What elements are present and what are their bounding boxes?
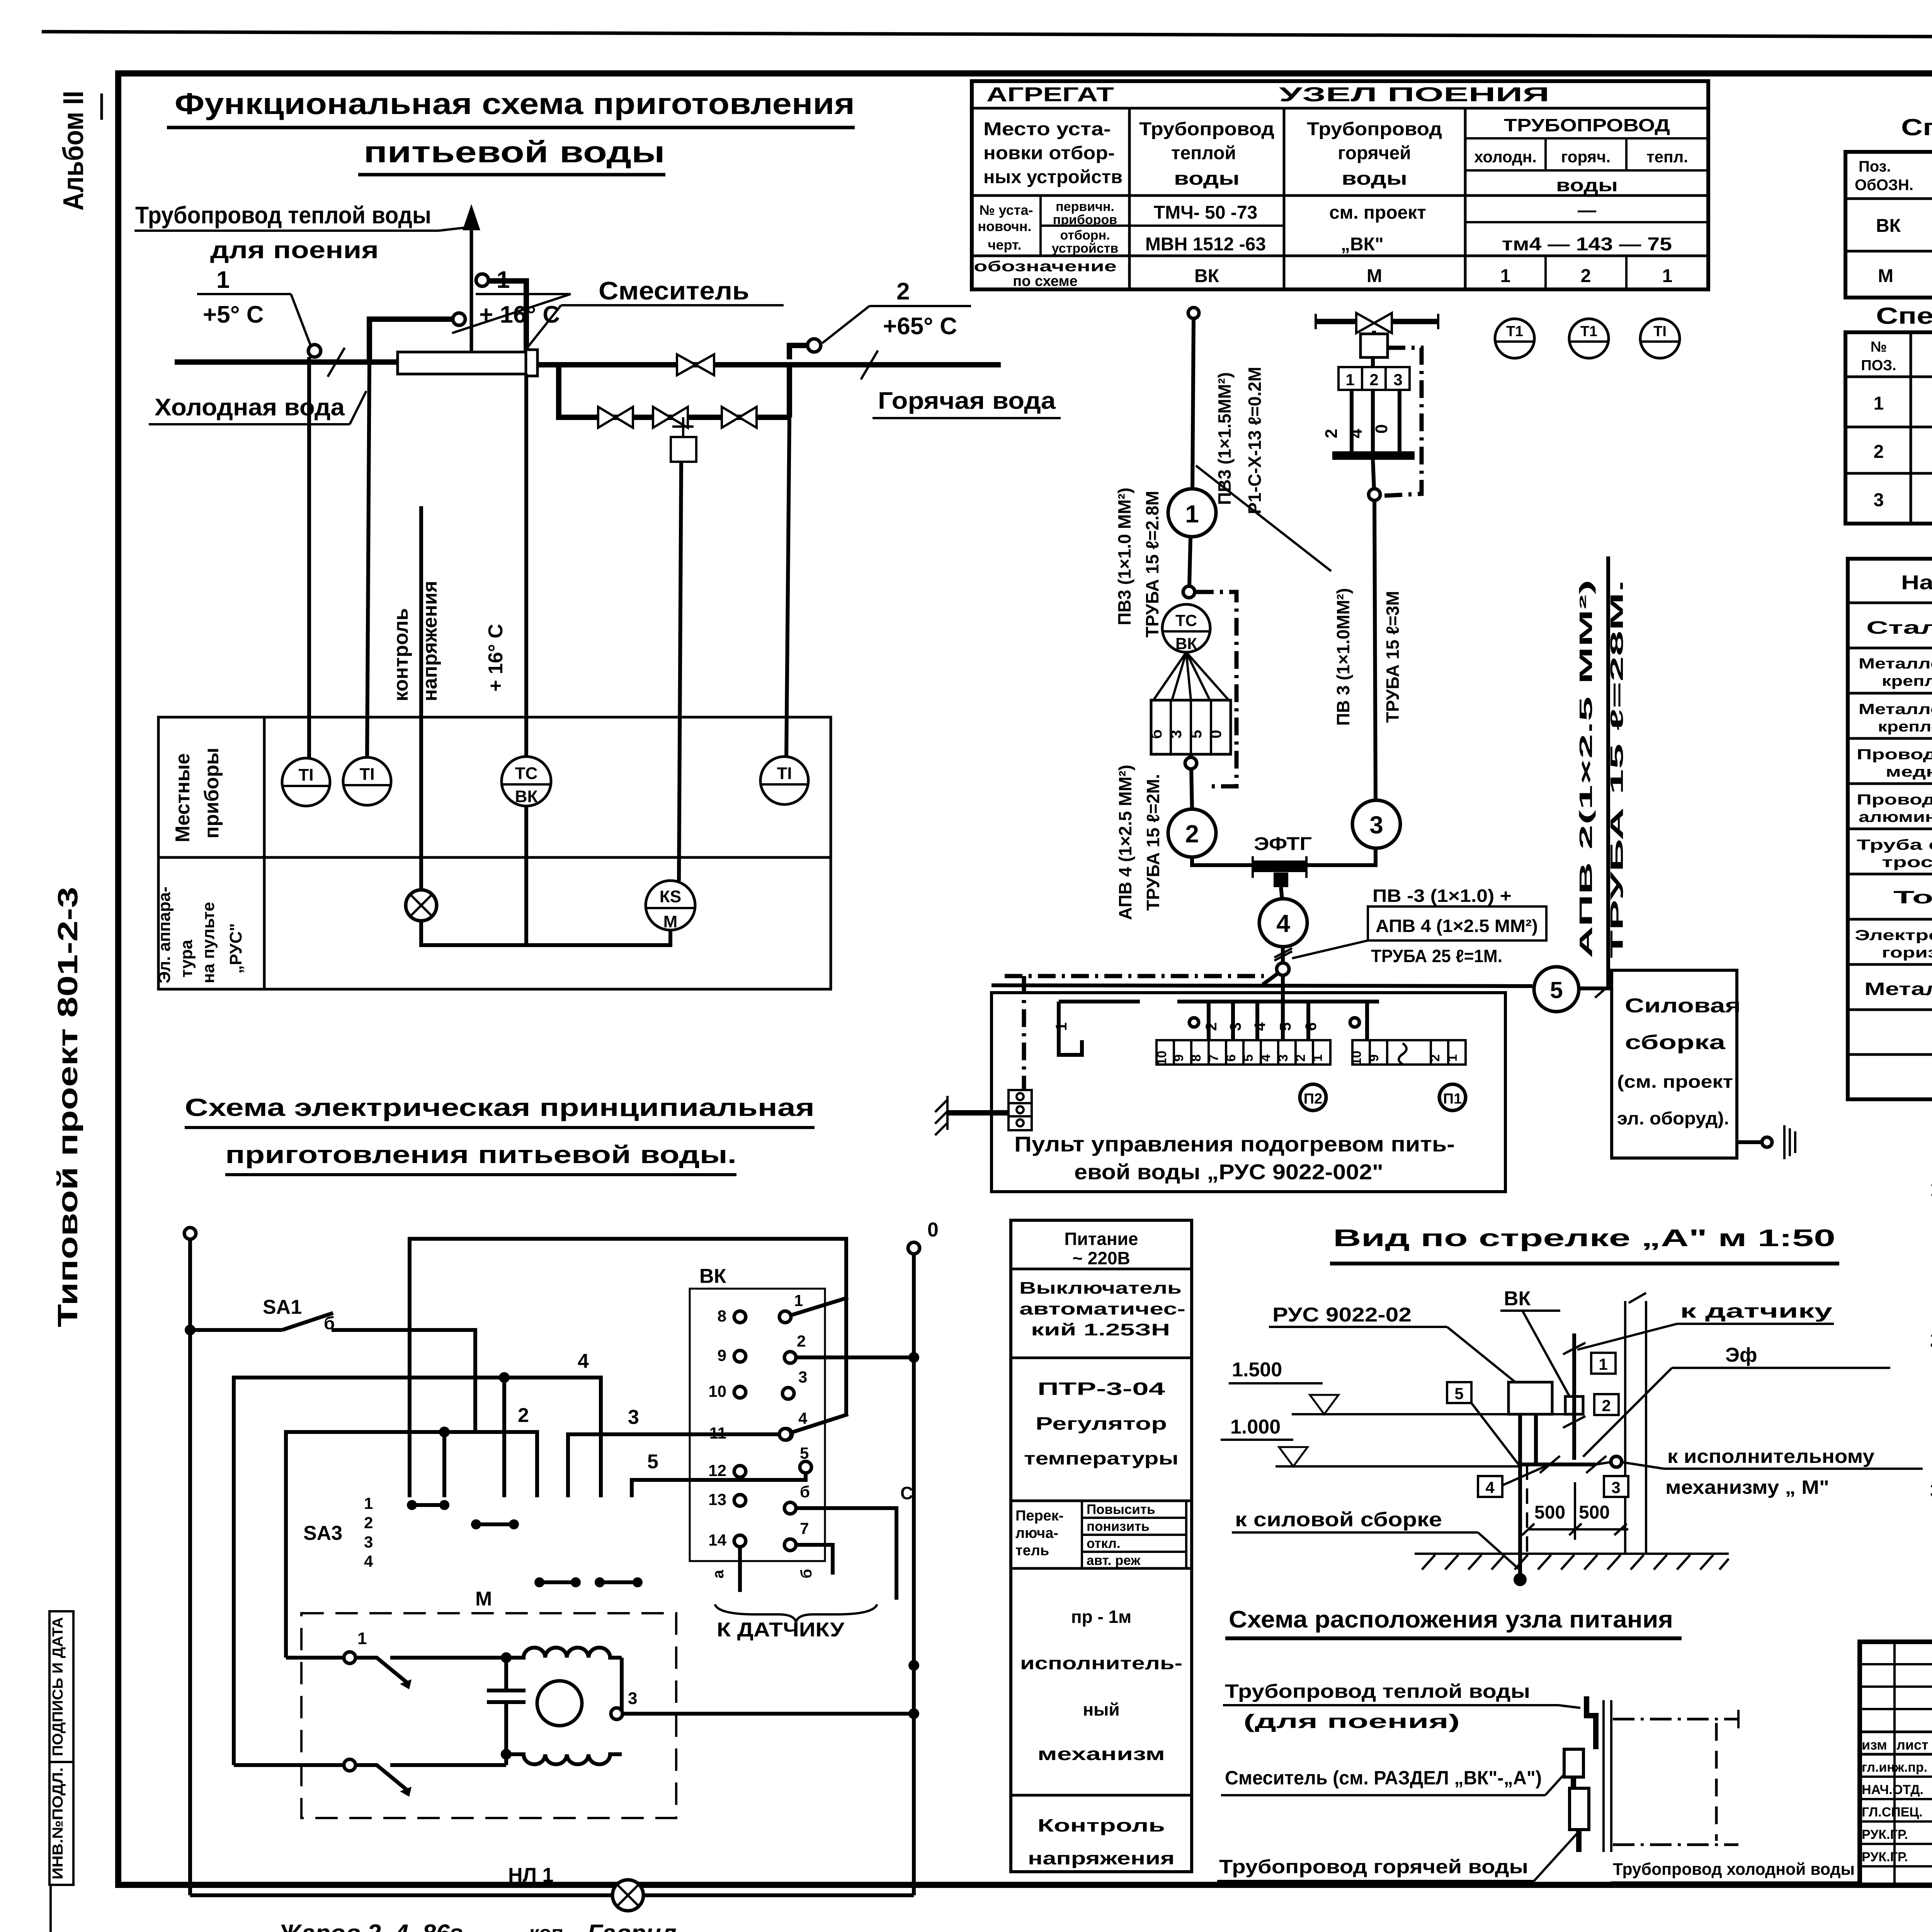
svg-text:„ВК": „ВК" [1341, 234, 1384, 255]
svg-text:АПВ 4 (1×2.5 ММ²): АПВ 4 (1×2.5 ММ²) [1115, 765, 1135, 920]
svg-text:1: 1 [1500, 266, 1511, 286]
svg-text:+65° С: +65° С [883, 313, 957, 340]
instruments box [158, 717, 831, 989]
valve on hot line [677, 354, 714, 375]
svg-text:НАЧ.ОТД.: НАЧ.ОТД. [1862, 1782, 1923, 1797]
svg-text:холодн.: холодн. [1474, 148, 1537, 166]
svg-text:ВК: ВК [1504, 1287, 1531, 1310]
drop from dot bus2 [442, 1432, 446, 1497]
svg-text:ный: ный [1083, 1699, 1119, 1719]
svg-text:медными жилами: медными жилами [1886, 764, 1932, 780]
VK block outline [690, 1289, 825, 1561]
dash-dot tube into pult [1005, 974, 1264, 978]
wire 4 down into strip [1281, 986, 1285, 1040]
svg-text:НЛ 1: НЛ 1 [508, 1864, 553, 1886]
svg-text:сборка: сборка [1625, 1031, 1726, 1054]
pult ground wire [947, 1110, 1009, 1116]
NOTES [1930, 1178, 1932, 1502]
drop lines to bar [1350, 390, 1354, 453]
svg-text:ПОЗ.: ПОЗ. [1861, 357, 1896, 374]
MATERIALS TABLE [1848, 559, 1932, 1099]
circle sensor 2 [1168, 809, 1216, 857]
ground wire right of box [1737, 1140, 1762, 1144]
svg-text:алюминиевыми жилами.: алюминиевыми жилами. [1859, 809, 1932, 825]
marker 1 [1591, 1353, 1616, 1374]
cold water main pipe [175, 359, 399, 365]
svg-text:ОбОЗН.: ОбОЗН. [1855, 177, 1913, 194]
svg-text:+ 16° С: + 16° С [485, 624, 507, 692]
svg-text:М: М [1367, 266, 1382, 286]
circle sensor 4 [1259, 899, 1307, 947]
svg-text:13: 13 [708, 1490, 726, 1509]
svg-text:7: 7 [1206, 1054, 1221, 1062]
pipe break slash hot [861, 350, 878, 379]
svg-text:3: 3 [364, 1533, 373, 1551]
svg-text:питьевой воды: питьевой воды [364, 135, 665, 169]
svg-text:10: 10 [1155, 1051, 1169, 1065]
svg-text:(для поения): (для поения) [1243, 1711, 1460, 1732]
svg-text:АПВ 2(1×2.5 ММ²): АПВ 2(1×2.5 ММ²) [1576, 580, 1596, 958]
FUNCTIONAL DIAGRAM (top-left) [134, 87, 1061, 989]
valve with actuator [1356, 313, 1392, 333]
riser TI2 [367, 362, 369, 758]
SPEC TABLE 2: приборов КиП и А [1845, 303, 1932, 524]
svg-text:Силовая: Силовая [1625, 995, 1741, 1017]
stem to node circle [1373, 460, 1374, 489]
sheet top edge line [42, 32, 1932, 39]
svg-text:напряжения: напряжения [419, 581, 441, 701]
svg-text:на пульте: на пульте [199, 902, 218, 983]
svg-text:Поз.: Поз. [1859, 158, 1891, 175]
СИЛОВАЯ СБОРКА box [1612, 970, 1737, 1158]
svg-text:2: 2 [1293, 1054, 1308, 1062]
svg-text:РУК.ГР.: РУК.ГР. [1862, 1850, 1908, 1864]
svg-text:3: 3 [628, 1689, 637, 1708]
TC tap gamma: circle, line right, drop through mixer [476, 274, 488, 286]
instrument TI right [760, 757, 808, 804]
svg-text:ТРУБА 15 ℓ=3М: ТРУБА 15 ℓ=3М [1383, 591, 1403, 723]
svg-text:см. проект: см. проект [1329, 202, 1426, 223]
hot tap riser and circle [789, 345, 808, 359]
svg-text:6: 6 [1303, 1022, 1320, 1031]
svg-text:Трубопровод холодной воды: Трубопровод холодной воды [1613, 1860, 1855, 1879]
svg-text:—: — [1578, 200, 1596, 221]
svg-text:4: 4 [364, 1552, 373, 1570]
svg-text:тура: тура [177, 940, 196, 978]
wire head to circle2 [1189, 754, 1193, 757]
svg-text:2: 2 [1930, 1329, 1932, 1351]
svg-text:1: 1 [1874, 393, 1884, 414]
main bus wire to circle 5 [992, 985, 1532, 986]
svg-text:б: б [798, 1569, 815, 1578]
svg-text:гл.инж.пр.: гл.инж.пр. [1862, 1760, 1927, 1775]
thermo head box [1151, 700, 1231, 754]
VIEW A DRAWING [1221, 1225, 1923, 1586]
wire 3 to VK pin 11 [568, 1434, 781, 1497]
svg-text:SА3: SА3 [303, 1522, 342, 1544]
svg-text:ТРУБА 25 ℓ=1М.: ТРУБА 25 ℓ=1М. [1371, 946, 1502, 966]
switch SA1 [190, 1328, 282, 1332]
motor contact 2 bottom [344, 1759, 355, 1771]
wire контроль напряжения [419, 506, 423, 891]
marker 4 [1478, 1476, 1502, 1497]
svg-text:отборн.: отборн. [1060, 228, 1110, 243]
svg-text:3: 3 [1930, 1480, 1932, 1502]
svg-text:9: 9 [1172, 1054, 1186, 1062]
svg-text:4: 4 [1347, 429, 1366, 438]
leader to mixer [513, 305, 561, 366]
svg-text:Эл. аппара-: Эл. аппара- [155, 886, 174, 983]
lamp wire bottom [190, 1893, 612, 1897]
terminal strip 2 [1349, 1040, 1466, 1065]
svg-text:Перек-: Перек- [1015, 1508, 1063, 1524]
+16 tap gamma: circle, line left, drop to pipe [453, 313, 465, 325]
svg-text:Смеситель: Смеситель [599, 276, 749, 305]
svg-text:3: 3 [1611, 1478, 1620, 1497]
svg-text:Спецификация на электроапп: Спецификация на электроаппаратуру [1901, 114, 1932, 140]
svg-text:пров.: пров. [153, 1927, 207, 1932]
wire 2 bus [286, 1432, 537, 1658]
riser TI right [786, 417, 789, 758]
svg-text:№ уста-: № уста- [980, 202, 1033, 218]
leader to +16 circle [452, 294, 571, 333]
bypass valve 1 [598, 407, 633, 428]
horizontal tie [1520, 1463, 1596, 1466]
svg-text:П1: П1 [1443, 1091, 1462, 1107]
node circle +5 tap [308, 345, 321, 357]
marker 3 [1604, 1476, 1628, 1497]
svg-text:ПВ -3 (1×1.0) +: ПВ -3 (1×1.0) + [1372, 886, 1512, 906]
dash-dot pipes behind wall [1613, 1718, 1738, 1721]
svg-text:Пульт управления подогревом: Пульт управления подогревом пить- [1014, 1132, 1455, 1156]
svg-text:Трубопровод: Трубопровод [1139, 119, 1274, 139]
pin1 blade [791, 1298, 848, 1315]
MIDDLE DIAGRAM (узел поения wiring) [935, 308, 1795, 1192]
wire circle3 to tee [1307, 848, 1376, 865]
node circle on pult wire [1277, 963, 1289, 975]
svg-text:2: 2 [1203, 1022, 1220, 1031]
svg-text:Схема расположения узла пит: Схема расположения узла питания [1229, 1606, 1673, 1633]
svg-text:горизонтальный: горизонтальный [1882, 945, 1932, 961]
SA3 contact bar 1 [407, 1500, 449, 1510]
svg-text:+ 16° С: + 16° С [479, 301, 560, 328]
svg-text:пр - 1м: пр - 1м [1071, 1607, 1131, 1627]
svg-text:5: 5 [1277, 1022, 1294, 1031]
svg-text:10: 10 [708, 1382, 726, 1400]
svg-text:2: 2 [797, 1332, 806, 1350]
instrument TI group top [1495, 319, 1534, 358]
wire 1 down to bus corner [1059, 1040, 1082, 1055]
bottom handwriting [153, 1919, 677, 1932]
bypass branch down left [559, 365, 789, 417]
junction dot SA1 [185, 1325, 196, 1335]
VK pins right column [779, 1291, 811, 1551]
svg-text:Регулятор: Регулятор [1036, 1413, 1167, 1434]
svg-text:тепл.: тепл. [1646, 148, 1688, 166]
svg-text:3: 3 [1369, 811, 1383, 839]
dimension 500 500 [1574, 1482, 1576, 1540]
svg-text:К ДАТЧИКУ: К ДАТЧИКУ [717, 1619, 845, 1641]
svg-text:П2: П2 [1304, 1091, 1322, 1107]
svg-text:Трубопровод теплой воды: Трубопровод теплой воды [1225, 1680, 1530, 1702]
margin stamp cell ИНВ.№ПОДЛ. [49, 1762, 73, 1885]
к датчику brace [715, 1604, 877, 1622]
thermal blade top [355, 1658, 410, 1685]
ЭФТГ tee fitting [1252, 856, 1254, 878]
svg-text:4: 4 [1259, 1054, 1273, 1061]
svg-text:откл.: откл. [1087, 1536, 1121, 1551]
SA3 contact bar 2 [471, 1519, 519, 1529]
PULT box [992, 993, 1505, 1192]
svg-text:эл. оборуд).: эл. оборуд). [1617, 1108, 1729, 1128]
dash-dot to terminal block [1022, 976, 1026, 1090]
pin6 wire [796, 1508, 896, 1600]
node circle on wire 3 [1369, 489, 1380, 500]
svg-text:Спецификация приборов КиП: Спецификация приборов КиП и А [1876, 303, 1932, 329]
svg-text:1: 1 [364, 1494, 373, 1512]
svg-text:коп.: коп. [529, 1922, 569, 1932]
svg-text:теплой: теплой [1171, 143, 1236, 163]
TOP MIDDLE TABLE АГРЕГАТ / УЗЕЛ ПОЕНИЯ [972, 81, 1708, 289]
svg-text:тель: тель [1015, 1543, 1049, 1559]
mixer right cap [526, 350, 537, 376]
РУС box on wall [1509, 1382, 1552, 1414]
svg-text:2: 2 [1428, 1054, 1442, 1062]
svg-text:Сталь круглая: Сталь круглая [1866, 617, 1932, 638]
svg-text:Т1: Т1 [1506, 323, 1523, 340]
row lines [972, 107, 1708, 110]
VK pins left column [708, 1307, 792, 1549]
junction dot on bus2 [439, 1427, 450, 1437]
svg-text:+5° С: +5° С [203, 301, 264, 328]
svg-text:14: 14 [708, 1531, 726, 1549]
svg-text:500: 500 [1534, 1502, 1565, 1523]
ВК device box [1565, 1396, 1583, 1414]
svg-text:ТІ: ТІ [777, 764, 792, 783]
svg-text:SА1: SА1 [263, 1296, 302, 1318]
svg-text:Схема электрическая принципи: Схема электрическая принципиальная [185, 1094, 815, 1121]
svg-text:М: М [663, 912, 678, 931]
table frame [972, 81, 1708, 289]
svg-text:3: 3 [1168, 730, 1185, 738]
svg-text:ВК: ВК [1194, 266, 1219, 286]
svg-text:Металлоконструкции для: Металлоконструкции для [1859, 701, 1932, 718]
svg-text:ТРУБОПРОВОД: ТРУБОПРОВОД [1504, 115, 1670, 135]
svg-text:1: 1 [1599, 1355, 1607, 1373]
svg-text:а: а [710, 1570, 727, 1578]
sensor rod [1572, 1333, 1576, 1460]
instrument TI 1 [282, 758, 330, 806]
SPEC TABLE 1: электроаппаратура [1845, 114, 1932, 298]
svg-text:по схеме: по схеме [1013, 273, 1077, 289]
SA3 contact bar 3 [534, 1577, 581, 1587]
protective tube dash-dot around TC/BK [1196, 592, 1236, 786]
node circle below head [1185, 757, 1197, 769]
leader to wire [1292, 940, 1368, 958]
riser TI1 [307, 357, 311, 758]
relay KS/M [646, 881, 695, 931]
svg-text:ТС: ТС [515, 764, 538, 783]
pin2 wire to right feeder [796, 1355, 914, 1359]
svg-text:ГЛ.СПЕЦ.: ГЛ.СПЕЦ. [1862, 1805, 1923, 1820]
svg-text:9: 9 [718, 1346, 726, 1364]
П2 circle [1300, 1084, 1326, 1111]
svg-text:ТІ: ТІ [298, 765, 313, 784]
drop from dot bus4 [502, 1378, 506, 1497]
svg-text:Жаров 2. 4. 86г: Жаров 2. 4. 86г [277, 1919, 463, 1932]
bypass riser up right [787, 362, 792, 417]
svg-text:ПВ 3 (1×1.0ММ²): ПВ 3 (1×1.0ММ²) [1333, 588, 1353, 726]
svg-text:черт.: черт. [988, 237, 1022, 253]
pult inner bus [1177, 1000, 1379, 1003]
svg-text:ВК: ВК [1175, 634, 1197, 653]
phase terminal circle [184, 1228, 196, 1239]
svg-text:воды: воды [1342, 168, 1407, 189]
svg-text:к датчику: к датчику [1680, 1300, 1832, 1322]
svg-text:5: 5 [647, 1451, 658, 1473]
svg-text:Труба стальная элек-: Труба стальная элек- [1857, 837, 1932, 853]
svg-text:5: 5 [1454, 1384, 1463, 1403]
svg-text:РУС 9022-02: РУС 9022-02 [1272, 1304, 1412, 1326]
svg-text:б: б [800, 1483, 810, 1501]
svg-text:температуры: температуры [1024, 1448, 1179, 1468]
svg-text:приготовления питьевой воды.: приготовления питьевой воды. [225, 1141, 736, 1168]
svg-text:крепления приборов.: крепления приборов. [1882, 673, 1932, 689]
MIDDLE LEFT COLUMN (equipment list) [1011, 1220, 1192, 1872]
svg-text:2: 2 [1874, 442, 1884, 462]
svg-text:1: 1 [794, 1291, 803, 1310]
svg-text:ПОДПИСЬ И ДАТА: ПОДПИСЬ И ДАТА [50, 1617, 66, 1756]
left feeder wire [188, 1239, 192, 1895]
svg-text:Вид по стрелке „А" м 1:50: Вид по стрелке „А" м 1:50 [1333, 1225, 1835, 1252]
svg-text:тм4 — 143 — 75: тм4 — 143 — 75 [1502, 234, 1672, 255]
capacitor [504, 1658, 508, 1690]
wire 5 to VK pin 5 [632, 1473, 806, 1497]
svg-text:3: 3 [1874, 490, 1884, 510]
svg-text:Выключатель: Выключатель [1019, 1279, 1182, 1298]
wire actuator to KS [679, 462, 681, 881]
svg-text:1: 1 [1310, 1054, 1325, 1062]
svg-text:2: 2 [1602, 1396, 1611, 1415]
left mini table [1860, 1663, 1932, 1665]
svg-text:ПТР-3-04: ПТР-3-04 [1037, 1379, 1165, 1399]
marker 5 [1447, 1382, 1471, 1403]
svg-text:Т1: Т1 [1580, 323, 1597, 340]
svg-text:Гаврил: Гаврил [587, 1919, 677, 1932]
actuator stem and box [682, 417, 684, 437]
svg-text:Металлоконструкции для: Металлоконструкции для [1859, 656, 1932, 672]
junction dot on bus4 [499, 1372, 510, 1383]
svg-text:Контроль: Контроль [1037, 1815, 1165, 1835]
wire diagonal into pult bus [1263, 974, 1277, 985]
right side of motor loop [611, 1658, 622, 1714]
leader to hot tap circle [822, 306, 869, 343]
node circle top of line 1 [1188, 308, 1199, 318]
motor circle [537, 1681, 582, 1726]
svg-text:5: 5 [1188, 730, 1205, 738]
stem to circle 4 [1281, 887, 1282, 899]
svg-text:4: 4 [1276, 910, 1290, 937]
svg-text:новочн.: новочн. [978, 218, 1031, 234]
LAYOUT SCHEME [1217, 1606, 1859, 1883]
svg-text:2: 2 [1185, 820, 1199, 848]
svg-text:1: 1 [1930, 1178, 1932, 1201]
svg-text:МВН 1512 -63: МВН 1512 -63 [1145, 234, 1266, 255]
svg-text:ВК: ВК [1876, 216, 1901, 236]
instrument TC/BK [502, 757, 551, 806]
svg-text:механизму „ М": механизму „ М" [1665, 1476, 1829, 1498]
svg-text:лист: лист [1896, 1737, 1929, 1753]
M motor dashed box [301, 1613, 676, 1818]
svg-text:приборы: приборы [201, 748, 223, 838]
svg-text:~ 220В: ~ 220В [1072, 1248, 1130, 1268]
svg-text:ВК: ВК [515, 787, 538, 806]
svg-text:ТС: ТС [1175, 611, 1197, 629]
АПВ2 riser up [1606, 556, 1610, 986]
contact 3 [611, 1708, 622, 1719]
svg-text:Металлорукав: Металлорукав [1864, 979, 1932, 999]
mixer body [398, 352, 526, 374]
svg-text:АГРЕГАТ: АГРЕГАТ [986, 83, 1114, 106]
svg-text:5: 5 [800, 1444, 809, 1462]
pipe out of mixer to hot side [537, 362, 1001, 367]
ELECTRIC SCHEMATIC (bottom-left) [184, 1094, 939, 1911]
svg-text:8: 8 [1189, 1054, 1204, 1062]
svg-text:напряжения: напряжения [1028, 1848, 1175, 1868]
svg-text:ТІ: ТІ [359, 765, 374, 784]
svg-text:ТРУБА 15 ℓ=28М.: ТРУБА 15 ℓ=28М. [1607, 580, 1627, 958]
svg-text:евой воды „РУС 9022-002": евой воды „РУС 9022-002" [1074, 1160, 1383, 1184]
wall lines [1602, 1700, 1605, 1852]
svg-text:Трубопровод горячей воды: Трубопровод горячей воды [1219, 1856, 1528, 1878]
svg-text:2: 2 [364, 1514, 373, 1532]
svg-text:воды: воды [1556, 175, 1618, 195]
svg-text:кий 1.25ЗН: кий 1.25ЗН [1031, 1320, 1170, 1339]
svg-text:тросварная: тросварная [1882, 854, 1932, 871]
svg-text:ных устройств: ных устройств [983, 167, 1122, 187]
svg-text:Провод установочный с: Провод установочный с [1857, 747, 1932, 763]
col4 sub structure [1465, 137, 1708, 139]
circle sensor 3 [1352, 800, 1400, 848]
svg-text:11: 11 [709, 1424, 726, 1442]
svg-text:приборов: приборов [1053, 213, 1117, 227]
ground symbol left of pult [935, 1096, 947, 1135]
svg-text:0: 0 [1207, 730, 1225, 738]
svg-text:1: 1 [1345, 371, 1354, 389]
wire to winding top [390, 1656, 506, 1660]
svg-text:ИНВ.№ПОДЛ.: ИНВ.№ПОДЛ. [50, 1767, 66, 1879]
right feeder bottom junction [908, 1660, 919, 1671]
wire below circle 4 with break [1281, 947, 1285, 1002]
svg-text:8: 8 [718, 1307, 726, 1325]
circle junction 5 [1534, 967, 1579, 1012]
svg-text:Провод установочный с: Провод установочный с [1857, 792, 1932, 808]
winding top [506, 1648, 622, 1658]
svg-text:7: 7 [800, 1519, 809, 1537]
wire motor to right feeder [622, 1712, 914, 1716]
svg-text:Электрофитинг- тройник: Электрофитинг- тройник [1855, 927, 1932, 944]
warm water arrow up [470, 216, 473, 352]
svg-text:2: 2 [518, 1404, 529, 1427]
circle sensor 1 [1168, 489, 1216, 537]
wire below circle 1 [1189, 537, 1190, 586]
svg-text:Трубопровод: Трубопровод [1307, 119, 1442, 139]
svg-text:3: 3 [1227, 1022, 1244, 1031]
svg-text:То же: То же [1893, 887, 1932, 907]
svg-text:Смеситель (см. РАЗДЕЛ „ВК"-„А": Смеситель (см. РАЗДЕЛ „ВК"-„А") [1225, 1767, 1542, 1789]
svg-text:исполнитель-: исполнитель- [1020, 1653, 1182, 1673]
margin stamp cell ПОДПИСЬ И ДАТА [49, 1611, 73, 1762]
